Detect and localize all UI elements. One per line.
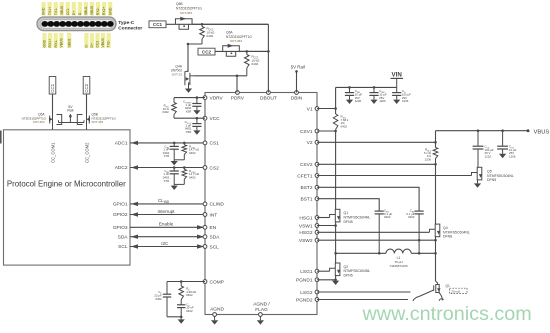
pin VCC (U1) — [203, 116, 220, 122]
wire LSG2 — [317, 291, 411, 293]
pin PGND2 (U1) — [296, 297, 319, 303]
pin BST1 (U1) — [301, 197, 319, 203]
ground (AGND/FLAG) — [257, 316, 264, 324]
wire VIN rail — [336, 86, 397, 88]
Type-C connector J1 — [37, 17, 116, 31]
label RSL1 — [341, 115, 349, 129]
pin SCL (U1) — [203, 244, 219, 250]
transistor Q6A NTZD3152PFT1G — [223, 46, 240, 52]
label CZ — [186, 302, 194, 313]
wire SW2 column — [435, 237, 437, 254]
svg-text:Q6B: Q6B — [176, 2, 183, 6]
resistor RZ 4.99k — [179, 280, 184, 305]
label CO2 — [509, 145, 517, 159]
wire V1 — [317, 108, 336, 110]
svg-text:DFN8: DFN8 — [443, 235, 452, 239]
label CIN2 — [379, 89, 387, 103]
capacitor CP — [163, 282, 171, 317]
wire SW1 to Q2 drain — [335, 253, 337, 263]
wire SW1 to L1 — [336, 252, 386, 254]
svg-text:FLAG: FLAG — [255, 307, 268, 313]
wire PGND2 — [317, 299, 408, 301]
wire LSG1 — [317, 270, 330, 272]
label Q4 NTMFS5C604NL DFN8 — [443, 226, 470, 239]
label CA1 1nF — [163, 144, 170, 158]
label RCS2 14.7k — [189, 169, 200, 180]
svg-text:D+: D+ — [90, 43, 94, 47]
pin LSG1 (U1) — [300, 269, 319, 275]
label Q1B 20 mOhm — [446, 284, 468, 294]
node 5V Rail (DBIN) — [291, 65, 305, 73]
ground (CS2 filter) — [171, 184, 178, 190]
junction (RCC1 top) — [201, 23, 204, 26]
svg-text:HSG2: HSG2 — [299, 230, 312, 236]
label RSL2 — [424, 148, 432, 162]
resistor RSL2 (output sense) — [433, 148, 438, 165]
wire Q4A drain to PDRV — [195, 75, 247, 77]
wire CFET1 to Q5 gate — [317, 175, 472, 177]
svg-text:CC1: CC1 — [153, 22, 163, 27]
svg-text:CFET1: CFET1 — [297, 173, 313, 179]
svg-text:GND: GND — [42, 7, 46, 15]
svg-text:VBUS: VBUS — [534, 129, 550, 135]
label RZ 4.99k — [186, 287, 197, 298]
transistor Q1B sense FET — [413, 281, 444, 301]
svg-text:CSV1: CSV1 — [300, 129, 313, 135]
label L1 15uH 74435571150 — [389, 256, 407, 268]
wire GPIO1-CLIND — [130, 203, 205, 205]
label CB2 0.1uF — [406, 209, 415, 220]
junction (VSW1 / SW1 column) — [334, 224, 337, 227]
svg-text:AGND /: AGND / — [253, 301, 270, 307]
pin PDRV (U1) — [231, 91, 245, 102]
svg-text:CLIND: CLIND — [210, 202, 225, 208]
svg-text:AGND: AGND — [210, 306, 224, 312]
pin CLIND (U1) — [203, 202, 224, 208]
svg-text:X5R: X5R — [186, 110, 192, 114]
net flag CC2 (top) — [198, 48, 215, 55]
svg-text:SOT-363: SOT-363 — [33, 120, 45, 124]
junction (PGND1 / Q2 source) — [334, 279, 337, 282]
svg-text:SCL: SCL — [118, 244, 128, 250]
svg-text:VSW1: VSW1 — [299, 223, 313, 229]
capacitor CO2 — [497, 129, 508, 158]
ground (Q4A source) — [185, 89, 192, 93]
svg-text:SBU2: SBU2 — [67, 39, 71, 48]
svg-text:0402: 0402 — [384, 215, 391, 219]
wire VSW1 — [317, 225, 336, 227]
wire Q6B to DBOUT column (overlap) — [192, 23, 268, 25]
svg-text:I2C: I2C — [161, 241, 169, 246]
svg-text:CSV2: CSV2 — [300, 162, 313, 168]
ground (CS1 filter) — [171, 160, 178, 166]
junction (SW1 column) — [334, 252, 337, 255]
wire VIN column top — [335, 87, 337, 114]
svg-text:PGND2: PGND2 — [296, 297, 313, 303]
svg-text:BST2: BST2 — [301, 185, 313, 191]
junction (V1 / VIN column) — [334, 107, 337, 110]
label Type-C Connector — [118, 20, 142, 32]
svg-text:5V Rail: 5V Rail — [291, 65, 305, 70]
junction (SW1 / CB1) — [378, 252, 381, 255]
label CVDRV 1uF — [183, 100, 192, 114]
svg-text:VSW2: VSW2 — [299, 238, 313, 244]
pin VSW1 (U1) — [299, 223, 319, 229]
svg-text:www.cntronics.com: www.cntronics.com — [362, 303, 532, 325]
node VBUS — [527, 129, 550, 135]
svg-text:COMP: COMP — [210, 279, 224, 285]
transistor Q5A NTZD3152PFT1G — [49, 113, 62, 127]
pin DBIN (U1) — [291, 91, 303, 102]
pin VDRV (U1) — [203, 95, 223, 101]
wire COMP network bottom join — [167, 316, 183, 319]
svg-text:0402: 0402 — [186, 309, 193, 313]
label Q5B NTZD3152PFT1G SOT-363 — [92, 113, 117, 125]
svg-text:X7R: X7R — [164, 154, 170, 158]
label RCC2 10k — [252, 55, 261, 67]
svg-text:BST1: BST1 — [301, 197, 313, 203]
junction (PDRV column) — [236, 75, 239, 78]
pin SDA (U1) — [203, 235, 220, 241]
wire VSW2 — [317, 239, 436, 241]
pin AGND (U1) — [210, 306, 224, 316]
label CIN1 — [355, 89, 363, 103]
ground (CVDRV) — [193, 110, 200, 114]
label Q1 NTMFS5C604NL DFN5 — [344, 211, 371, 224]
svg-text:1206: 1206 — [509, 154, 516, 158]
wire HSG1 — [317, 217, 330, 219]
IC U1 NCP81239 controller — [205, 93, 317, 315]
svg-text:20 mΩ: 20 mΩ — [451, 289, 461, 293]
label Q5A NTZD3152PFT1G SOT-363 — [22, 113, 47, 125]
svg-text:V2: V2 — [307, 140, 313, 146]
capacitor CO1 — [473, 129, 484, 167]
svg-text:D-: D- — [78, 12, 82, 16]
wire Q5B to CC_COM2 — [86, 127, 88, 130]
pin CSV2 (U1) — [300, 162, 319, 168]
svg-text:CC2: CC2 — [202, 50, 212, 55]
junction (RCC1 / Q4A gate) — [187, 43, 190, 46]
svg-text:LSG2: LSG2 — [300, 290, 313, 296]
transistor Q4A 2N7002 — [185, 71, 195, 89]
wire VBUS column top — [435, 131, 437, 148]
svg-text:VCC: VCC — [210, 116, 221, 122]
ground (COMP network) — [178, 317, 185, 324]
svg-text:SOT-363: SOT-363 — [92, 120, 104, 124]
svg-text:TX1+: TX1+ — [48, 7, 52, 15]
inductor L1 15uH — [386, 249, 411, 253]
svg-text:SOT-363: SOT-363 — [230, 39, 242, 43]
resistor RSL1 (input sense) — [333, 114, 338, 132]
pin CS1 (U1) — [203, 141, 219, 147]
label RCC1 10k — [207, 27, 216, 39]
transistor Q6B NTZD3152PFT1G — [175, 19, 192, 25]
wire Q5A to CC_COM1 — [52, 127, 54, 130]
svg-text:0402: 0402 — [252, 62, 259, 66]
svg-text:TX2-: TX2- — [107, 40, 111, 47]
svg-text:VBUS: VBUS — [60, 5, 64, 15]
scan artifact left edge — [0, 131, 2, 144]
transistor Q5B NTZD3152PFT1G — [77, 113, 90, 127]
wire CSV2 — [317, 163, 436, 165]
svg-text:SCL: SCL — [210, 244, 220, 250]
wire HSG2 — [317, 231, 430, 233]
svg-text:DFN5: DFN5 — [344, 274, 353, 278]
pin BST2 (U1) — [301, 185, 319, 191]
wire CSV1 — [317, 130, 336, 132]
svg-text:0402: 0402 — [189, 151, 196, 155]
svg-text:CS1: CS1 — [210, 141, 220, 147]
svg-text:CS2: CS2 — [210, 165, 220, 171]
junction (SW2 / CB2 bottom) — [418, 252, 421, 255]
svg-text:Interrupt: Interrupt — [157, 209, 175, 214]
svg-text:Rail: Rail — [67, 109, 73, 113]
svg-text:ADC1: ADC1 — [115, 141, 128, 147]
junction (CSV2 / Q4 column) — [434, 163, 437, 166]
pin CSV1 (U1) — [300, 129, 319, 135]
svg-text:RX2+: RX2+ — [102, 7, 106, 16]
net flag CC2 (left) — [83, 77, 90, 95]
svg-text:Enable: Enable — [159, 222, 174, 227]
pin DBOUT (U1) — [260, 91, 277, 102]
svg-text:1206: 1206 — [402, 99, 409, 103]
resistor RCS1 14.7k — [174, 142, 186, 160]
svg-text:0402: 0402 — [162, 110, 169, 114]
svg-text:VBUS: VBUS — [59, 38, 63, 48]
svg-text:SDA: SDA — [118, 234, 129, 240]
svg-text:SDA: SDA — [210, 235, 221, 241]
wire BST2 — [317, 187, 419, 211]
ground (AGND) — [211, 316, 218, 324]
wire Q4 drain column — [435, 164, 437, 224]
svg-text:DBIN: DBIN — [291, 95, 303, 101]
capacitor CVDRV — [192, 96, 201, 110]
label Q6A NTZD3152PFT1G SOT-363 — [226, 31, 252, 44]
svg-text:0402: 0402 — [189, 176, 196, 180]
svg-text:SBU1: SBU1 — [84, 6, 88, 15]
pin CFET1 (U1) — [297, 173, 319, 179]
wire CC1 to Q5A — [52, 94, 54, 113]
svg-text:EN: EN — [210, 225, 217, 231]
wire L1 to SW2 — [411, 252, 435, 254]
wire SW2 to Q1B sense — [435, 253, 437, 281]
svg-text:0402: 0402 — [341, 124, 348, 128]
label Q4A 2N7002 SOT-23 — [171, 65, 183, 77]
svg-text:SOT-363: SOT-363 — [180, 11, 192, 15]
transistor Q4 NTMFS5C604NL (HS boost) — [430, 229, 436, 232]
wire 5V Rail to DBIN — [296, 71, 298, 92]
Type-C bottom pin labels (B12-B1) — [42, 33, 110, 48]
svg-text:CC2: CC2 — [84, 83, 89, 92]
svg-text:V1: V1 — [307, 106, 313, 112]
wire BST1 — [317, 199, 379, 211]
node VIN — [391, 71, 404, 87]
wire GPIO3-EN — [130, 226, 205, 228]
transistor Q1 NTMFS5C604NL (HS buck) — [330, 215, 336, 218]
svg-text:1206: 1206 — [355, 99, 362, 103]
svg-text:GND: GND — [43, 39, 47, 47]
pin V1 (U1) — [307, 106, 319, 112]
svg-text:CC1: CC1 — [66, 8, 70, 15]
svg-text:1210: 1210 — [485, 154, 492, 158]
svg-text:RX1-: RX1- — [54, 40, 58, 48]
label Q6B NTZD3152PFT1G SOT-363 — [176, 2, 202, 15]
wire COMP — [167, 281, 205, 283]
svg-text:Protocol Engine or Microcontro: Protocol Engine or Microcontroller — [7, 179, 126, 188]
net flag CC1 (top) — [149, 21, 166, 28]
svg-text:RX1+: RX1+ — [48, 39, 52, 48]
svg-text:GPIO3: GPIO3 — [113, 225, 128, 231]
wire PDRV column — [236, 76, 238, 93]
svg-text:VBUS: VBUS — [90, 5, 94, 15]
svg-text:SOT-23: SOT-23 — [172, 73, 183, 77]
capacitor CZ — [177, 305, 185, 317]
wire VDRV — [174, 97, 205, 99]
svg-text:1206: 1206 — [425, 157, 432, 161]
capacitor CB2 — [415, 211, 424, 253]
junction (DBOUT column / CC2 branch) — [267, 50, 270, 53]
wire PGND1 — [317, 279, 336, 281]
capacitor CD — [392, 87, 401, 104]
svg-text:HSG1: HSG1 — [299, 215, 312, 221]
svg-text:RX2-: RX2- — [96, 7, 100, 15]
capacitor CA1 — [170, 142, 179, 160]
wire CC2 to Q6A — [215, 50, 268, 52]
ground (Q5 source) — [474, 180, 481, 188]
ground (CVCC) — [193, 130, 200, 134]
wire Q6A to DBOUT column — [239, 50, 268, 52]
pin VSW2 (U1) — [299, 238, 319, 244]
pin PGND1 (U1) — [296, 278, 319, 284]
wire V2 — [317, 141, 436, 143]
svg-text:ADC2: ADC2 — [115, 165, 128, 171]
wire SDA — [130, 236, 205, 238]
svg-text:VIN: VIN — [392, 71, 403, 78]
svg-text:0402: 0402 — [207, 34, 214, 38]
pin INT (U1) — [203, 212, 217, 218]
svg-text:DFN5: DFN5 — [344, 220, 353, 224]
wire ADC1-CS1 — [130, 142, 205, 144]
label RVD — [162, 104, 169, 115]
junction (V2 / VBUS column) — [434, 141, 437, 144]
ground (Q2 source / PGND1) — [332, 281, 339, 285]
resistor RVD — [172, 98, 177, 119]
label RCS1 14.7k — [189, 144, 200, 155]
label CD — [402, 89, 411, 103]
wire ADC2-CS2 — [130, 167, 205, 169]
svg-text:Connector: Connector — [118, 26, 142, 32]
svg-text:1206: 1206 — [379, 99, 386, 103]
pin V2 (U1) — [307, 140, 319, 146]
svg-text:GPIO1: GPIO1 — [113, 202, 128, 208]
wire VCC — [174, 117, 205, 119]
svg-text:CC2: CC2 — [96, 41, 100, 48]
svg-text:D+: D+ — [72, 11, 76, 15]
node 5V Rail (left) — [59, 105, 85, 123]
label CO1 — [485, 145, 494, 159]
wire CC1 to Q6B — [166, 23, 268, 25]
svg-text:GND: GND — [108, 7, 112, 15]
wire RCC1 to Q4A — [187, 44, 189, 72]
svg-text:VDRV: VDRV — [210, 95, 224, 101]
wire CC2 to Q5B — [86, 94, 88, 113]
svg-text:CC1: CC1 — [50, 83, 55, 92]
net flag CC1 (left) — [49, 77, 56, 95]
svg-text:0402: 0402 — [186, 293, 193, 297]
label CB1 0.1uF — [384, 209, 392, 220]
pin HSG2 (U1) — [299, 230, 318, 236]
capacitor CVCC — [192, 117, 201, 131]
svg-text:DBOUT: DBOUT — [260, 95, 277, 101]
svg-text:0402: 0402 — [408, 215, 415, 219]
svg-text:VBUS: VBUS — [101, 38, 105, 48]
svg-text:Q1: Q1 — [446, 284, 450, 288]
pin EN (U1) — [203, 225, 217, 231]
wire GPIO2-INT — [130, 214, 205, 216]
resistor RCC1 10k — [188, 24, 204, 44]
svg-text:Type-C: Type-C — [118, 20, 134, 26]
Type-C top pin labels (A1-A12) — [42, 2, 113, 16]
resistor RCS2 14.7k — [174, 166, 186, 184]
wire DBOUT column — [267, 24, 269, 92]
pin CS2 (U1) — [203, 165, 219, 171]
label CP — [154, 290, 162, 301]
label CVCC 1uF — [185, 120, 192, 134]
junction (SW2 / sense column) — [434, 252, 437, 255]
junction (VSW2 / CB2) — [418, 239, 421, 242]
svg-text:DFN5: DFN5 — [487, 178, 496, 182]
label Q2 NTMFS5C604NL DFN5 — [344, 265, 371, 278]
svg-text:INT: INT — [210, 212, 218, 218]
wire VBUS rail — [436, 130, 529, 132]
svg-text:CC_COM2: CC_COM2 — [84, 142, 89, 163]
svg-text:PDRV: PDRV — [231, 95, 245, 101]
capacitor CIN2 — [369, 86, 378, 104]
transistor Q5 NTMFS5C604NL — [472, 167, 483, 180]
svg-text:CC_COM1: CC_COM1 — [50, 142, 55, 163]
svg-text:GPIO2: GPIO2 — [113, 212, 128, 218]
svg-text:TX1-: TX1- — [54, 8, 58, 15]
label CA2 1nF — [163, 169, 170, 183]
svg-text:74435571150: 74435571150 — [389, 264, 407, 268]
svg-text:LSG1: LSG1 — [300, 269, 313, 275]
svg-text:0402: 0402 — [155, 297, 162, 301]
capacitor CA2 — [170, 166, 179, 184]
pin AGND/FLAG (U1) — [253, 301, 270, 316]
svg-text:X5R: X5R — [186, 130, 192, 134]
capacitor CIN1 — [345, 86, 354, 104]
pin COMP (U1) — [203, 279, 224, 285]
svg-text:Q6A: Q6A — [226, 31, 233, 35]
wire SCL — [130, 246, 205, 248]
svg-text:X7R: X7R — [164, 179, 170, 183]
resistor RCC2 10k — [245, 50, 250, 76]
pin LSG2 (U1) — [300, 290, 319, 296]
transistor Q2 NTMFS5C604NL (LS buck) — [330, 268, 336, 271]
svg-text:PGND1: PGND1 — [296, 278, 313, 284]
junction (CSV1 / Q1 drain column) — [334, 130, 337, 133]
wire SW1 column — [335, 222, 337, 253]
label Q5 NTMFS5C604NL DFN5 — [487, 170, 514, 183]
capacitor CB1 — [375, 211, 384, 253]
wire Q1 drain column — [335, 131, 337, 209]
wire Q2 source — [335, 276, 337, 280]
junction (VSW2 / SW2 column) — [434, 239, 437, 242]
block U2 Protocol Engine or Microcontroller — [4, 130, 131, 265]
svg-text:D-: D- — [85, 44, 89, 48]
pin HSG1 (U1) — [299, 215, 318, 221]
